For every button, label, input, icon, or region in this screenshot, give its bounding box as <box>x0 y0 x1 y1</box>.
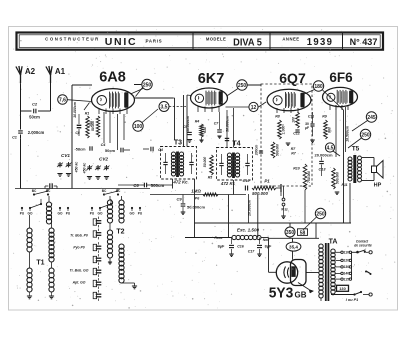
svg-text:1939: 1939 <box>307 37 333 48</box>
svg-text:5Y3: 5Y3 <box>269 284 294 300</box>
svg-text:Pyo P0: Pyo P0 <box>73 246 84 250</box>
svg-text:130: 130 <box>343 265 349 269</box>
svg-text:Tr. Bob. P0: Tr. Bob. P0 <box>70 234 88 238</box>
svg-text:500.000: 500.000 <box>252 191 268 196</box>
svg-text:R10: R10 <box>293 167 300 171</box>
svg-text:-58cm: -58cm <box>75 148 87 152</box>
svg-text:8μF: 8μF <box>265 245 272 249</box>
svg-text:PU: PU <box>90 212 95 216</box>
svg-text:R5: R5 <box>208 176 213 180</box>
svg-text:3,5: 3,5 <box>161 104 168 110</box>
svg-text:472 Kc: 472 Kc <box>172 180 188 185</box>
svg-text:C13: C13 <box>319 168 327 172</box>
svg-text:10.000cm: 10.000cm <box>73 102 77 118</box>
svg-text:BC: BC <box>102 189 107 193</box>
svg-text:GO: GO <box>98 212 103 216</box>
svg-text:T1: T1 <box>36 260 44 267</box>
svg-text:N° 437: N° 437 <box>350 37 378 47</box>
svg-text:50.000: 50.000 <box>91 121 95 131</box>
svg-text:50.000cm: 50.000cm <box>187 205 205 210</box>
svg-text:250: 250 <box>361 132 370 138</box>
svg-text:T5: T5 <box>352 146 360 153</box>
svg-text:C1: C1 <box>12 136 17 140</box>
svg-text:GO: GO <box>28 212 33 216</box>
svg-text:180: 180 <box>314 84 323 90</box>
svg-text:PU: PU <box>138 212 143 216</box>
svg-text:450 kc: 450 kc <box>75 162 79 174</box>
svg-text:1.000: 1.000 <box>282 126 286 135</box>
svg-text:PU: PU <box>20 212 25 216</box>
svg-text:50cm: 50cm <box>29 115 40 120</box>
svg-text:P.U.: P.U. <box>281 207 288 212</box>
svg-text:A2: A2 <box>25 67 36 76</box>
svg-text:R8: R8 <box>275 115 280 119</box>
svg-text:Rose: Rose <box>214 236 222 240</box>
svg-text:58: 58 <box>300 230 306 236</box>
svg-text:18.500cm: 18.500cm <box>346 126 350 142</box>
svg-text:50cm: 50cm <box>105 148 116 153</box>
svg-text:750.000: 750.000 <box>307 171 311 183</box>
svg-text:Tr. Bob. GO: Tr. Bob. GO <box>70 269 89 273</box>
svg-text:100: 100 <box>134 124 143 130</box>
svg-text:ANNEE: ANNEE <box>282 36 299 41</box>
svg-text:200cm: 200cm <box>255 145 259 157</box>
svg-text:35,4: 35,4 <box>289 244 298 249</box>
svg-text:500.000: 500.000 <box>276 144 280 156</box>
svg-text:140: 140 <box>343 272 349 276</box>
svg-text:350: 350 <box>286 230 295 236</box>
svg-text:C11: C11 <box>308 115 314 119</box>
svg-text:2.000cm: 2.000cm <box>28 130 45 135</box>
svg-text:CV1: CV1 <box>61 153 70 158</box>
svg-text:UNIC: UNIC <box>105 36 137 48</box>
svg-text:R11: R11 <box>342 183 348 187</box>
svg-text:4,5: 4,5 <box>327 145 334 151</box>
svg-text:6A8: 6A8 <box>99 69 126 85</box>
svg-text:GO: GO <box>130 212 135 216</box>
svg-text:T2: T2 <box>116 229 124 236</box>
svg-text:1MΩ: 1MΩ <box>191 189 201 194</box>
svg-text:PU: PU <box>66 212 71 216</box>
svg-text:50.000: 50.000 <box>203 157 207 167</box>
svg-text:8μF: 8μF <box>218 245 225 249</box>
svg-text:de sécurité: de sécurité <box>354 244 372 248</box>
svg-text:130: 130 <box>339 286 346 291</box>
svg-text:250: 250 <box>143 82 152 88</box>
svg-text:110: 110 <box>344 251 350 255</box>
svg-text:100: 100 <box>292 117 296 123</box>
svg-text:450 kc: 450 kc <box>83 163 87 175</box>
svg-text:115: 115 <box>344 277 350 281</box>
svg-text:C16: C16 <box>237 245 245 249</box>
svg-text:TA: TA <box>329 239 338 246</box>
svg-text:C2: C2 <box>32 102 38 107</box>
svg-text:P1: P1 <box>264 179 270 184</box>
svg-text:GB: GB <box>295 291 307 300</box>
svg-text:6F6: 6F6 <box>329 70 353 85</box>
svg-text:C10: C10 <box>243 179 251 183</box>
svg-text:A1: A1 <box>55 67 66 76</box>
svg-text:500.000: 500.000 <box>336 172 340 184</box>
svg-text:6K7: 6K7 <box>198 71 225 87</box>
svg-text:50.000cm: 50.000cm <box>186 116 190 132</box>
svg-text:CV2: CV2 <box>99 157 108 162</box>
svg-text:MODELE: MODELE <box>206 37 226 42</box>
svg-text:μF: μF <box>305 126 309 130</box>
svg-text:DIVA 5: DIVA 5 <box>233 37 262 49</box>
svg-text:CONSTRUCTEUR: CONSTRUCTEUR <box>45 37 100 42</box>
svg-text:20.000cm: 20.000cm <box>314 153 332 158</box>
svg-text:630: 630 <box>203 127 207 133</box>
svg-text:HP: HP <box>374 183 382 189</box>
svg-text:R4: R4 <box>195 120 200 124</box>
svg-text:R1: R1 <box>85 112 90 116</box>
svg-text:250: 250 <box>316 211 325 217</box>
svg-text:C9: C9 <box>176 197 182 202</box>
svg-text:120: 120 <box>343 259 349 263</box>
svg-text:R9: R9 <box>322 115 327 119</box>
svg-text:GO: GO <box>58 212 63 216</box>
svg-text:C17: C17 <box>248 250 256 254</box>
svg-text:I ou P1: I ou P1 <box>346 298 358 302</box>
svg-text:880: 880 <box>328 127 332 133</box>
svg-text:245: 245 <box>367 115 376 121</box>
svg-text:Apt. GO: Apt. GO <box>72 281 86 285</box>
svg-text:Exc. 1.500: Exc. 1.500 <box>237 228 260 233</box>
svg-text:250: 250 <box>238 83 247 89</box>
svg-text:50.000cm: 50.000cm <box>226 116 230 132</box>
svg-text:BC: BC <box>32 189 37 193</box>
svg-text:PARIS: PARIS <box>146 38 163 43</box>
